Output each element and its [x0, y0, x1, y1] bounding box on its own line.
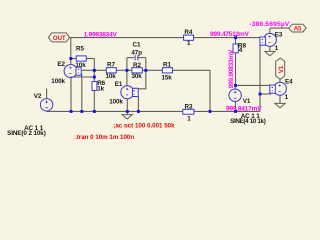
wire E3 top to A5 flag	[270, 27, 289, 29]
svg-text:E4: E4	[285, 78, 293, 85]
wire E1 box lower pin to rail	[137, 97, 139, 112]
svg-text:E3: E3	[275, 32, 283, 39]
junction rail at E2 ctrl pin	[80, 110, 83, 113]
svg-text:1: 1	[187, 40, 191, 47]
resistor R4	[184, 29, 194, 47]
wire E1 top pin	[126, 70, 128, 86]
wire E2 circle bottom to rail	[70, 77, 72, 112]
junction top rail at R8	[234, 36, 237, 39]
wire E1 bottom pin	[126, 99, 128, 112]
wire bottom rail	[47, 110, 260, 112]
junction rail at E2 bottom	[70, 110, 73, 113]
svg-text:R5: R5	[76, 46, 84, 53]
wire R5 right lead and drop	[86, 58, 94, 60]
junction rail at R1 drop	[209, 110, 212, 113]
wire E3 top pin up	[269, 28, 271, 34]
junction V1 top node	[234, 84, 237, 87]
svg-text:1: 1	[187, 116, 191, 123]
junction E4 ctrl lower node	[259, 93, 262, 96]
junction rail at E1 ctrl pin	[137, 110, 140, 113]
source V1	[229, 89, 251, 105]
op-amp E1 (VCVS gain 100k)	[109, 81, 138, 105]
junction rail at V1 bottom	[234, 110, 237, 113]
svg-text:R7: R7	[107, 61, 115, 68]
ground below E1	[122, 111, 132, 119]
svg-text:1.9993834V: 1.9993834V	[84, 31, 118, 38]
wire vertical x94.3 to rail	[93, 59, 95, 112]
svg-text:SINE(0 2 10k): SINE(0 2 10k)	[7, 130, 46, 137]
wire E4 top stub to V1 flag	[279, 79, 281, 82]
source V2	[34, 93, 53, 111]
junction E2 lower wire at R6 column	[93, 76, 96, 79]
wire E4 ctrl lower pin	[260, 93, 271, 95]
svg-text:30k: 30k	[132, 73, 143, 80]
flag OUT	[48, 33, 69, 42]
buffer E3 (VCVS gain 1)	[260, 32, 283, 53]
svg-text:-386.5695µV: -386.5695µV	[249, 21, 289, 28]
wire E3 bottom stub	[269, 46, 271, 51]
svg-text:V1: V1	[278, 65, 285, 73]
wire R5 left lead	[71, 58, 76, 60]
svg-text:1: 1	[285, 94, 289, 101]
resistor R2	[132, 62, 143, 80]
svg-text:V2: V2	[34, 93, 42, 100]
wire R8 bottom lead to V1 top	[235, 53, 237, 89]
wire V2 top stub	[46, 88, 48, 98]
junction R7/R2/C1/E1 node	[126, 69, 129, 72]
wire V1 bottom to rail	[235, 101, 237, 111]
svg-text:R2: R2	[133, 62, 141, 69]
svg-text:R3: R3	[185, 103, 193, 110]
buffer E4 (VCVS gain 1)	[270, 78, 293, 101]
svg-text:E2: E2	[57, 61, 65, 68]
capacitor C1	[131, 42, 142, 61]
svg-text:15k: 15k	[162, 74, 173, 81]
junction R5 left tap on OUT branch	[69, 57, 72, 60]
svg-text:4: 4	[239, 47, 243, 54]
wire OUT node down to E2 top	[70, 38, 72, 65]
wire R8 top lead	[235, 38, 237, 44]
junction R2/R1/C1/E1-ctrl node	[144, 69, 147, 72]
wire C1 lead left	[127, 57, 134, 59]
ground below E4	[275, 103, 285, 107]
junction summing node at R7 row	[93, 69, 96, 72]
svg-text:R4: R4	[184, 29, 192, 36]
svg-text:10k: 10k	[106, 73, 117, 80]
svg-text:OUT: OUT	[53, 35, 66, 42]
svg-text:999.8417mV: 999.8417mV	[226, 106, 262, 113]
wire E2 lower horizontal	[71, 76, 94, 78]
svg-text:V1: V1	[243, 98, 251, 105]
svg-text:C1: C1	[133, 42, 141, 49]
ground below E3	[265, 51, 275, 55]
resistor R6	[92, 80, 106, 93]
resistor R1	[162, 62, 173, 82]
svg-text:1k: 1k	[97, 86, 104, 93]
junction rail at R6 bottom	[93, 110, 96, 113]
wire main row E2 ctrl to R1 right	[82, 69, 210, 71]
wire E3 ctrl down to rail	[259, 45, 261, 111]
svg-text:47p: 47p	[131, 50, 142, 57]
flag V1 (rotated)	[276, 58, 285, 79]
resistor R7	[106, 61, 117, 80]
svg-text:E1: E1	[115, 81, 123, 88]
wire C1 loop right leg	[145, 58, 147, 71]
wire E2 ctrl lower pin to rail	[81, 73, 83, 111]
svg-text:SINE(4 10 1k): SINE(4 10 1k)	[230, 118, 266, 125]
wire E1 box upper pin to R1 node	[138, 70, 146, 89]
resistor R8	[233, 43, 246, 54]
resistor R5	[75, 46, 86, 70]
svg-text:R1: R1	[163, 62, 171, 69]
wire E4 bottom stub	[279, 95, 281, 103]
svg-text:A5: A5	[294, 26, 302, 33]
op-amp E2 (VCVS gain 100k)	[51, 61, 81, 85]
svg-text:.tran 0 10m 1m 100n: .tran 0 10m 1m 100n	[75, 134, 134, 141]
junction rail at E1 bottom and ground	[126, 110, 129, 113]
wire R1 right drop to rail	[209, 70, 211, 111]
wire C1 lead right	[137, 57, 146, 59]
wire V1 top to E4 ctrl upper	[236, 84, 270, 86]
svg-text:100k: 100k	[51, 78, 65, 85]
svg-text:999.90833mV: 999.90833mV	[228, 49, 235, 89]
wire top rail OUT flag to E3 ctrl	[70, 37, 262, 39]
svg-text:100k: 100k	[109, 98, 123, 105]
wire C1 loop left leg	[126, 58, 128, 71]
svg-text:999.47512mV: 999.47512mV	[210, 31, 250, 38]
flag A5	[289, 24, 307, 33]
resistor R3	[183, 103, 194, 122]
svg-text:;ac oct 100 0.001 50k: ;ac oct 100 0.001 50k	[113, 122, 175, 129]
